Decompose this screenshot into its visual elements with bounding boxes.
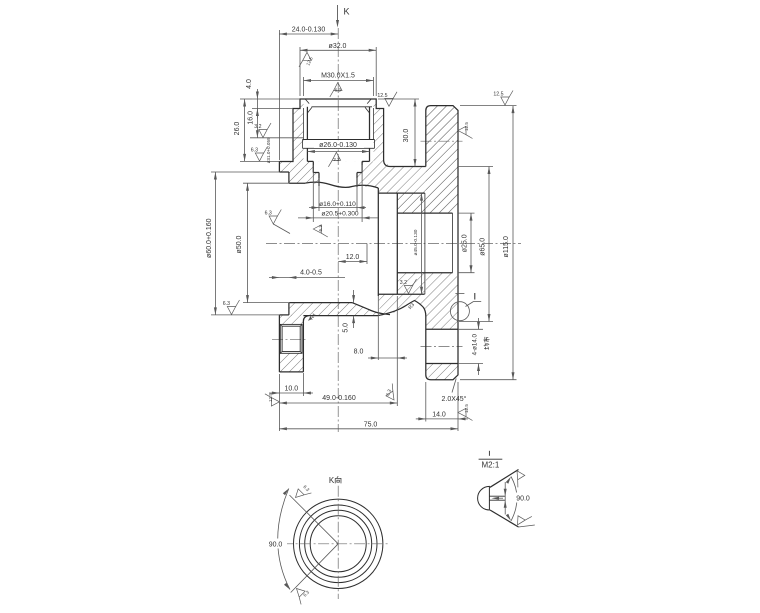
hatch: foot lower (279, 353, 303, 372)
hatch: web right of chamber (397, 193, 425, 213)
svg-text:ø20.5+0.300: ø20.5+0.300 (321, 210, 359, 217)
svg-text:12.5: 12.5 (268, 393, 273, 402)
roughness 12.5 bottom left (265, 394, 280, 406)
detail M 90 deg arc (511, 477, 517, 521)
dim ø65.0 (488, 167, 490, 322)
left face (278, 162, 280, 173)
svg-text:K: K (344, 7, 350, 17)
hatch: upper body section (279, 99, 458, 213)
dim ø25.0 (470, 213, 472, 273)
flange outline (426, 106, 458, 380)
thread relief groove ø31 (303, 139, 375, 141)
roughness 12.5 flange right face (458, 126, 473, 138)
svg-text:ø115.0: ø115.0 (503, 236, 510, 257)
chamber ø45 (377, 188, 379, 296)
roughness 6.3 on ø20.5 ext (313, 225, 328, 237)
dim 24.0-0.130 (279, 33, 338, 35)
svg-text:ø45.0-0.130: ø45.0-0.130 (413, 229, 419, 255)
bore ø60 (279, 171, 289, 173)
centerline: bolt circle top (421, 140, 463, 142)
roughness 12.5 bottom right (458, 408, 473, 420)
svg-text:M2:1: M2:1 (482, 461, 500, 470)
svg-text:ø60.0+0.160: ø60.0+0.160 (206, 218, 213, 258)
dim 12.0 (338, 261, 367, 263)
foot hole (280, 324, 302, 353)
dim 4-ø14.0 (478, 318, 480, 329)
roughness 12.5 on ø32 (299, 52, 311, 67)
svg-text:3.2: 3.2 (400, 280, 407, 286)
svg-text:24.0-0.130: 24.0-0.130 (292, 27, 326, 34)
foot outline (279, 371, 303, 373)
svg-text:75.0: 75.0 (364, 422, 378, 429)
roughness 12.5 top right flange (501, 91, 513, 106)
hatch: slope sliver (378, 294, 426, 315)
roughness 6.3 on M30 dim (330, 83, 342, 98)
roughness 6.3 cavity leader (269, 210, 281, 225)
hatch: flange lower (426, 364, 458, 380)
dim 5.0 (353, 290, 355, 303)
fillet label R4 (308, 316, 312, 321)
thread hole M30 internal (312, 106, 373, 108)
detail M roughness flags (510, 469, 528, 488)
svg-text:ø25.0: ø25.0 (461, 234, 468, 252)
svg-text:5.0: 5.0 (343, 323, 350, 333)
svg-text:ø32.0: ø32.0 (329, 43, 347, 50)
svg-text:ø26.0-0.130: ø26.0-0.130 (319, 142, 357, 149)
hatch: bottom wall strip over foot (279, 315, 303, 325)
dim 16.0 thread depth (256, 99, 258, 138)
roughness 6.3 lower left (227, 300, 239, 315)
dim 26.0 bore depth (244, 99, 246, 161)
K view direction arrow (337, 5, 339, 21)
centerline: main horizontal axis (266, 243, 521, 245)
dim ø115.0 (512, 106, 514, 380)
svg-text:6.3: 6.3 (223, 301, 230, 307)
svg-text:2.0X45°: 2.0X45° (442, 395, 467, 403)
K view centerlines (337, 486, 339, 599)
svg-text:16.0: 16.0 (247, 111, 254, 125)
svg-text:ø50.0: ø50.0 (236, 235, 243, 253)
svg-text:ø31.0+0.059: ø31.0+0.059 (266, 137, 271, 163)
roughness 6.3 on 49 ext (382, 384, 400, 403)
roughness 3.2 chamber bottom (404, 279, 416, 294)
svg-text:14.0: 14.0 (432, 411, 446, 418)
dim ø20.5+0.300 (298, 217, 378, 219)
detail M label (488, 451, 490, 456)
svg-text:12.5: 12.5 (464, 404, 469, 413)
svg-text:12.5: 12.5 (464, 122, 469, 131)
centerline: bolt hole bottom (421, 346, 463, 348)
detail M hole dia arrows (504, 482, 506, 515)
svg-text:12.5: 12.5 (493, 92, 503, 98)
svg-text:6.3: 6.3 (251, 148, 258, 154)
dim ø26.0-0.130 (307, 151, 369, 153)
svg-text:3.2: 3.2 (333, 157, 340, 162)
dim 8.0 (368, 357, 407, 359)
roughness 3.2 on ø26 dim (328, 152, 340, 167)
dim ø60.0+0.160 (214, 172, 216, 315)
svg-text:30.0: 30.0 (403, 129, 410, 143)
dim ø32.0 (300, 49, 376, 51)
dim ø50.0 (247, 183, 249, 302)
dim ø16.0+0.110 (309, 207, 366, 209)
dim 4.0-0.5 (269, 277, 345, 279)
svg-text:90.0: 90.0 (269, 542, 283, 549)
svg-text:6.3: 6.3 (318, 225, 323, 232)
svg-text:12.0: 12.0 (346, 254, 360, 261)
svg-text:10.0: 10.0 (284, 386, 298, 393)
detail balloon I (450, 302, 469, 321)
bore ø26 (306, 107, 308, 140)
svg-text:6.3: 6.3 (335, 88, 342, 93)
dim 30.0 boss height (414, 99, 416, 167)
svg-text:8.0: 8.0 (354, 348, 364, 355)
detail M center drill shape (478, 486, 490, 510)
svg-text:M30.0X1.5: M30.0X1.5 (321, 72, 355, 79)
K view circles (294, 499, 383, 588)
svg-text:ø16.0+0.110: ø16.0+0.110 (319, 201, 356, 208)
bore ø50 cast cavity (289, 182, 305, 184)
roughness 3.2 thread relief (259, 123, 271, 138)
svg-text:90.0: 90.0 (516, 496, 530, 503)
dim ø45.0-0.130 (421, 193, 423, 294)
dim 75.0 (279, 428, 458, 430)
bore ø25 (397, 212, 452, 214)
svg-text:49.0-0.160: 49.0-0.160 (322, 395, 356, 402)
body bottom + slope to flange (303, 315, 378, 317)
svg-text:26.0: 26.0 (234, 122, 241, 136)
detail M cone lines (490, 470, 519, 488)
hatch: flange upper (426, 106, 458, 214)
svg-text:4-ø14.0: 4-ø14.0 (472, 333, 479, 355)
roughness 12.5 boss collar top (385, 92, 397, 107)
roughness 6.3 left top face (255, 147, 267, 162)
K view 90 deg arc (278, 489, 290, 590)
boss outline (279, 99, 425, 167)
hatch: lower body wall (289, 303, 385, 316)
dim 14.0 (416, 418, 426, 420)
centerline: boss vertical axis (337, 28, 339, 432)
svg-text:4.0: 4.0 (246, 79, 253, 89)
drill hole ø20.5 / ø16 (312, 161, 314, 172)
bolt hole ø14 section (426, 328, 458, 330)
svg-text:K: K (329, 476, 335, 485)
K view roughness flags (293, 484, 312, 503)
dim 10.0 (269, 392, 313, 394)
svg-text:6.3: 6.3 (265, 211, 272, 217)
svg-text:ø65.0: ø65.0 (479, 238, 486, 256)
stray extension line right face (455, 293, 464, 295)
centerline: foot hole (272, 339, 308, 341)
K view section rays (290, 495, 339, 544)
hatch: flange mid (426, 273, 458, 330)
dim 49.0-0.160 (279, 402, 397, 404)
svg-text:12.5: 12.5 (377, 93, 387, 99)
dim 4.0 (lip) (256, 89, 258, 99)
svg-text:3.2: 3.2 (254, 124, 261, 130)
dim M30.0X1.5 (304, 80, 374, 82)
svg-text:4.0-0.5: 4.0-0.5 (300, 270, 322, 277)
